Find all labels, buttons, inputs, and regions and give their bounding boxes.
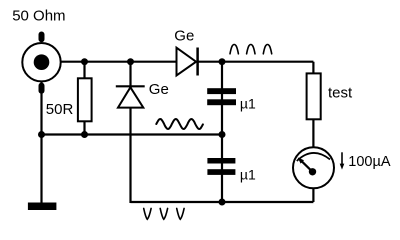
svg-text:100µA: 100µA [348, 154, 391, 170]
svg-text:Ge: Ge [174, 27, 194, 44]
svg-text:µ1: µ1 [240, 167, 256, 183]
svg-text:test: test [328, 85, 353, 102]
svg-text:µ1: µ1 [240, 96, 256, 112]
svg-text:50R: 50R [46, 101, 74, 118]
svg-text:Ge: Ge [149, 81, 169, 98]
svg-text:50 Ohm: 50 Ohm [12, 8, 65, 25]
